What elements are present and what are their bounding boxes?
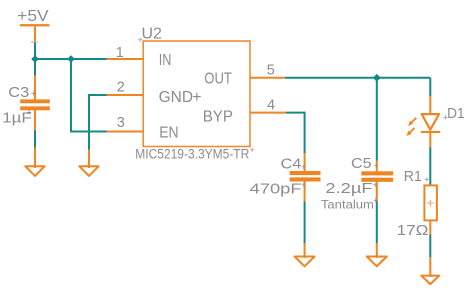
capacitor C4 — [250, 153, 321, 202]
svg-text:Tantalum: Tantalum — [321, 197, 374, 211]
svg-text:C4: C4 — [281, 155, 302, 172]
svg-text:+: + — [138, 35, 143, 45]
IC U2 body — [138, 26, 251, 147]
svg-text:+: + — [192, 89, 201, 106]
pin 4 BYP — [203, 98, 286, 126]
svg-text:+: + — [424, 175, 429, 185]
ground (R1 net) — [421, 257, 439, 284]
svg-text:C5: C5 — [351, 155, 372, 172]
svg-text:+: + — [27, 108, 32, 118]
capacitor C5 — [321, 155, 393, 211]
wire +5V to C3 — [34, 59, 36, 76]
pin 3 EN — [107, 115, 179, 142]
resistor R1 — [397, 168, 437, 239]
label MIC5219-3.3YM5-TR — [135, 145, 254, 162]
ground (C4 net) — [295, 243, 315, 266]
svg-text:BYP: BYP — [203, 108, 233, 125]
svg-text:17Ω: 17Ω — [397, 222, 429, 239]
svg-text:470pF: 470pF — [250, 181, 302, 198]
svg-text:D1: D1 — [447, 105, 465, 122]
svg-text:1: 1 — [116, 45, 124, 61]
ground (C5 net) — [367, 243, 387, 266]
svg-text:GND: GND — [159, 89, 193, 106]
svg-text:2: 2 — [117, 80, 125, 96]
svg-text:5: 5 — [267, 63, 275, 79]
wire C3 to ground — [34, 130, 36, 148]
svg-text:OUT: OUT — [204, 71, 232, 88]
wire R1 to ground — [429, 235, 431, 258]
wire +5V net to pin IN — [35, 43, 107, 60]
svg-text:+: + — [373, 180, 378, 190]
wire C4 to ground — [304, 201, 306, 243]
svg-text:R1: R1 — [404, 168, 422, 185]
svg-text:3: 3 — [117, 115, 125, 131]
power +5V — [17, 8, 49, 43]
capacitor C3 — [2, 75, 50, 130]
wire BYP to C4 — [286, 113, 305, 154]
svg-text:U2: U2 — [142, 26, 163, 43]
svg-text:+: + — [31, 89, 36, 99]
junction node +5V/C3 — [31, 55, 39, 63]
svg-text:MIC5219-3.3YM5-TR: MIC5219-3.3YM5-TR — [135, 147, 249, 162]
wire EN branch — [71, 59, 107, 132]
svg-text:+5V: +5V — [17, 8, 49, 25]
ground (GND pin) — [79, 150, 98, 176]
pin 1 IN — [107, 45, 172, 69]
svg-text:C3: C3 — [8, 84, 29, 101]
svg-text:2.2µF: 2.2µF — [325, 180, 372, 197]
svg-text:EN: EN — [159, 125, 178, 142]
svg-text:+: + — [301, 180, 306, 190]
pin 2 GND — [107, 80, 202, 106]
pin 5 OUT — [204, 63, 285, 88]
svg-text:IN: IN — [159, 52, 172, 69]
svg-text:+: + — [250, 145, 255, 155]
ground (C3 net) — [25, 148, 44, 176]
junction node EN branch — [67, 55, 75, 63]
svg-text:4: 4 — [267, 98, 275, 114]
wire C5 to ground — [376, 201, 378, 243]
svg-text:+: + — [443, 113, 448, 123]
junction node OUT/C5 — [373, 74, 381, 82]
wire D1 to R1 — [429, 147, 431, 185]
svg-text:+: + — [374, 161, 379, 171]
svg-text:+: + — [301, 162, 306, 172]
wire OUT net — [285, 78, 430, 161]
LED D1 — [406, 96, 464, 148]
wire GND pin to ground — [89, 95, 107, 150]
